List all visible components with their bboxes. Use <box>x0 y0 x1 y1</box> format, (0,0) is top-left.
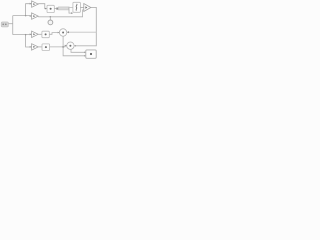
wire A5 out down right side <box>74 7 96 45</box>
wire bottom feed y34.6 <box>13 34 32 36</box>
block B4 with dot <box>42 44 50 51</box>
amplifier A5 VGA <box>84 4 91 12</box>
arrowhead into sink lower <box>84 55 86 57</box>
wire bar to B2 <box>69 6 73 8</box>
amplifier A3 <box>32 31 39 37</box>
wire chain2 rail <box>38 10 83 17</box>
arrowhead into mixer M2 left <box>65 45 67 47</box>
arrowhead into A3 <box>30 33 32 35</box>
wire B4 to mixer M2 left <box>50 46 67 47</box>
arrowhead into mixer M2 right port <box>74 45 76 47</box>
wire mixer M1 bottom to sink lower <box>63 36 86 56</box>
wire A1 out with corner down <box>38 4 47 9</box>
arrowhead into mixer M1 right <box>67 31 69 33</box>
arrowhead into mixer M1 left <box>58 32 60 34</box>
sink scope block <box>86 50 96 58</box>
amplifier A2 <box>32 13 39 19</box>
node junction J4 <box>62 46 64 48</box>
node junction J3 <box>50 16 52 18</box>
wire B2 to A5 <box>80 6 83 8</box>
probe circle P1 <box>48 20 53 25</box>
connector block <box>56 8 58 10</box>
amplifier A1 <box>32 1 39 7</box>
wire probe stem <box>49 17 51 20</box>
mixer M2 <box>67 42 74 49</box>
arrowhead into A2 <box>30 15 32 17</box>
block B1 with dot <box>47 5 54 12</box>
wire A3 to B3 <box>38 33 42 35</box>
wire spine vertical <box>12 16 14 35</box>
wire bus down to T4 <box>26 35 32 47</box>
block B2 filter <box>73 2 81 12</box>
arrowhead into A4 <box>30 46 32 48</box>
wire source to spine <box>8 23 12 25</box>
node junction J1 <box>25 15 27 17</box>
source block SRC <box>1 22 8 27</box>
wire bus up to T1 <box>26 4 32 16</box>
mixer M1 <box>59 29 66 36</box>
transmission line bar <box>58 7 69 10</box>
wire mixer M1 right port <box>67 31 97 33</box>
wire bar dogleg to B2 lower port <box>69 10 73 13</box>
arrowhead into sink upper <box>84 52 86 54</box>
block B3 with dot <box>42 31 49 38</box>
amplifier A4 <box>32 44 39 50</box>
wire mixer M2 bottom to sink upper <box>71 49 86 52</box>
wire B1 out <box>54 8 56 10</box>
arrowhead into A1 <box>30 3 32 5</box>
node junction J2 <box>25 34 27 36</box>
wire B3 to mixer M1 <box>49 33 59 35</box>
arrowhead into B2 <box>71 12 73 14</box>
arrowhead into B1 <box>45 8 47 10</box>
wire A4 to B4 <box>38 46 42 48</box>
wire top feed y15.6 <box>13 15 32 17</box>
